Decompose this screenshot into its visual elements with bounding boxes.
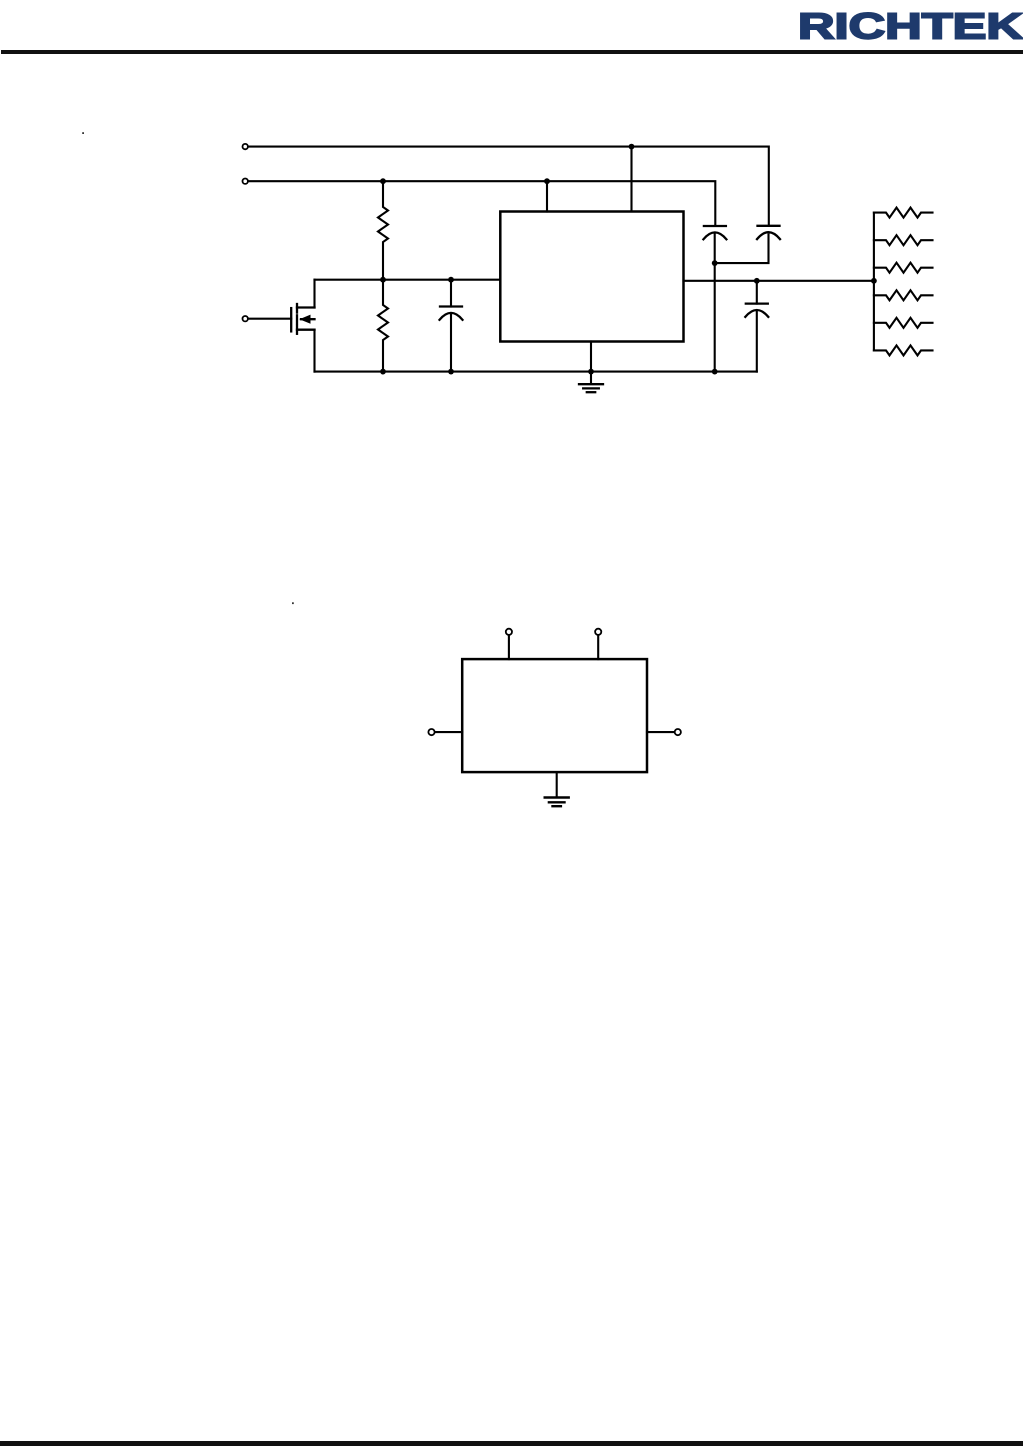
resistor R1 xyxy=(378,181,388,280)
wire VIN1 top rail xyxy=(248,147,768,225)
node rail to resistor bank xyxy=(871,278,877,284)
wire ground rail xyxy=(315,371,757,373)
resistor RL6 xyxy=(874,345,933,355)
wire EN to IC xyxy=(546,181,548,211)
wire gate xyxy=(248,318,291,320)
IC U2 xyxy=(462,659,647,772)
resistor bank rail xyxy=(873,213,875,351)
node IC EN pin xyxy=(544,178,550,184)
terminal VIN1 xyxy=(243,144,248,149)
header rule xyxy=(1,50,1023,54)
node R2 top xyxy=(380,277,386,283)
resistor RL4 xyxy=(874,290,933,300)
footer rule xyxy=(0,1441,1023,1446)
wire top rail to IC pin xyxy=(630,147,632,212)
terminal gate input xyxy=(243,316,248,321)
resistor R2 xyxy=(378,280,388,372)
terminal U2 right pin xyxy=(647,729,681,735)
capacitor C4 xyxy=(703,226,726,372)
wire IC right pin xyxy=(684,280,874,282)
wire IC left pin xyxy=(315,279,501,281)
node GND stem xyxy=(588,369,594,375)
terminal U2 left pin xyxy=(428,729,462,735)
stray dot top-left of figure 1 xyxy=(82,132,84,134)
transistor Q1 xyxy=(291,280,314,372)
ground U2 xyxy=(545,772,569,806)
node C4 bottom xyxy=(712,369,718,375)
wire VIN2 rail xyxy=(248,181,715,225)
IC U1 xyxy=(500,212,683,342)
resistor RL5 xyxy=(874,318,933,328)
resistor RL2 xyxy=(874,235,933,245)
node R1 top xyxy=(380,178,386,184)
resistor RL1 xyxy=(874,208,933,218)
capacitor C2 xyxy=(440,280,463,372)
svg-text:RICHTEK: RICHTEK xyxy=(798,5,1023,46)
ground xyxy=(579,342,603,393)
node C2 top xyxy=(448,277,454,283)
node C3 top xyxy=(754,278,760,284)
terminal U2 top pin 1 xyxy=(506,629,512,659)
stray dot above figure 2 xyxy=(292,602,294,604)
node R2 bottom xyxy=(380,369,386,375)
resistor RL3 xyxy=(874,263,933,273)
wire C4 to C5 xyxy=(715,235,769,264)
node C4/C5 bottom join xyxy=(712,260,718,266)
terminal VIN2 xyxy=(243,179,248,184)
capacitor C3 xyxy=(745,281,768,372)
node C2 bottom xyxy=(448,369,454,375)
capacitor C5 xyxy=(757,226,780,239)
terminal U2 top pin 2 xyxy=(595,629,601,659)
node on top rail xyxy=(629,144,635,150)
